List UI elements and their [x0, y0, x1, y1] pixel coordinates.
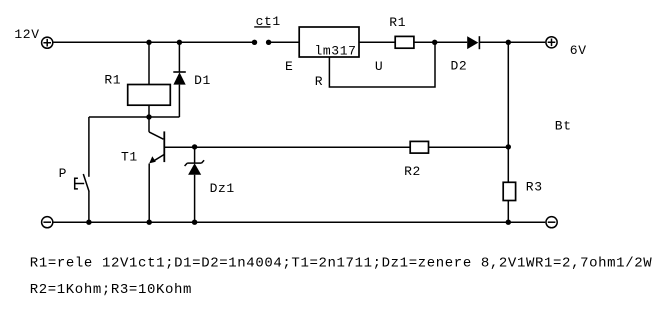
svg-text:U: U	[375, 59, 383, 74]
svg-text:P: P	[59, 166, 67, 181]
svg-text:R1: R1	[104, 73, 121, 88]
svg-text:12V: 12V	[14, 27, 39, 42]
svg-text:lm317: lm317	[315, 44, 357, 59]
svg-text:R: R	[315, 74, 323, 89]
svg-text:R1: R1	[389, 15, 406, 30]
svg-text:E: E	[285, 59, 293, 74]
svg-text:R2: R2	[404, 164, 421, 179]
svg-text:T1: T1	[121, 150, 138, 165]
svg-text:D2: D2	[451, 58, 468, 73]
svg-text:Bt: Bt	[555, 119, 572, 134]
svg-text:R1=rele 12V1ct1;D1=D2=1n4004;T: R1=rele 12V1ct1;D1=D2=1n4004;T1=2n1711;D…	[30, 256, 652, 272]
svg-text:R2=1Kohm;R3=10Kohm: R2=1Kohm;R3=10Kohm	[30, 282, 192, 298]
svg-text:R3: R3	[526, 180, 543, 195]
svg-text:6V: 6V	[570, 43, 587, 58]
svg-text:ct1: ct1	[256, 14, 281, 29]
svg-text:D1: D1	[194, 73, 211, 88]
svg-text:Dz1: Dz1	[210, 181, 235, 196]
